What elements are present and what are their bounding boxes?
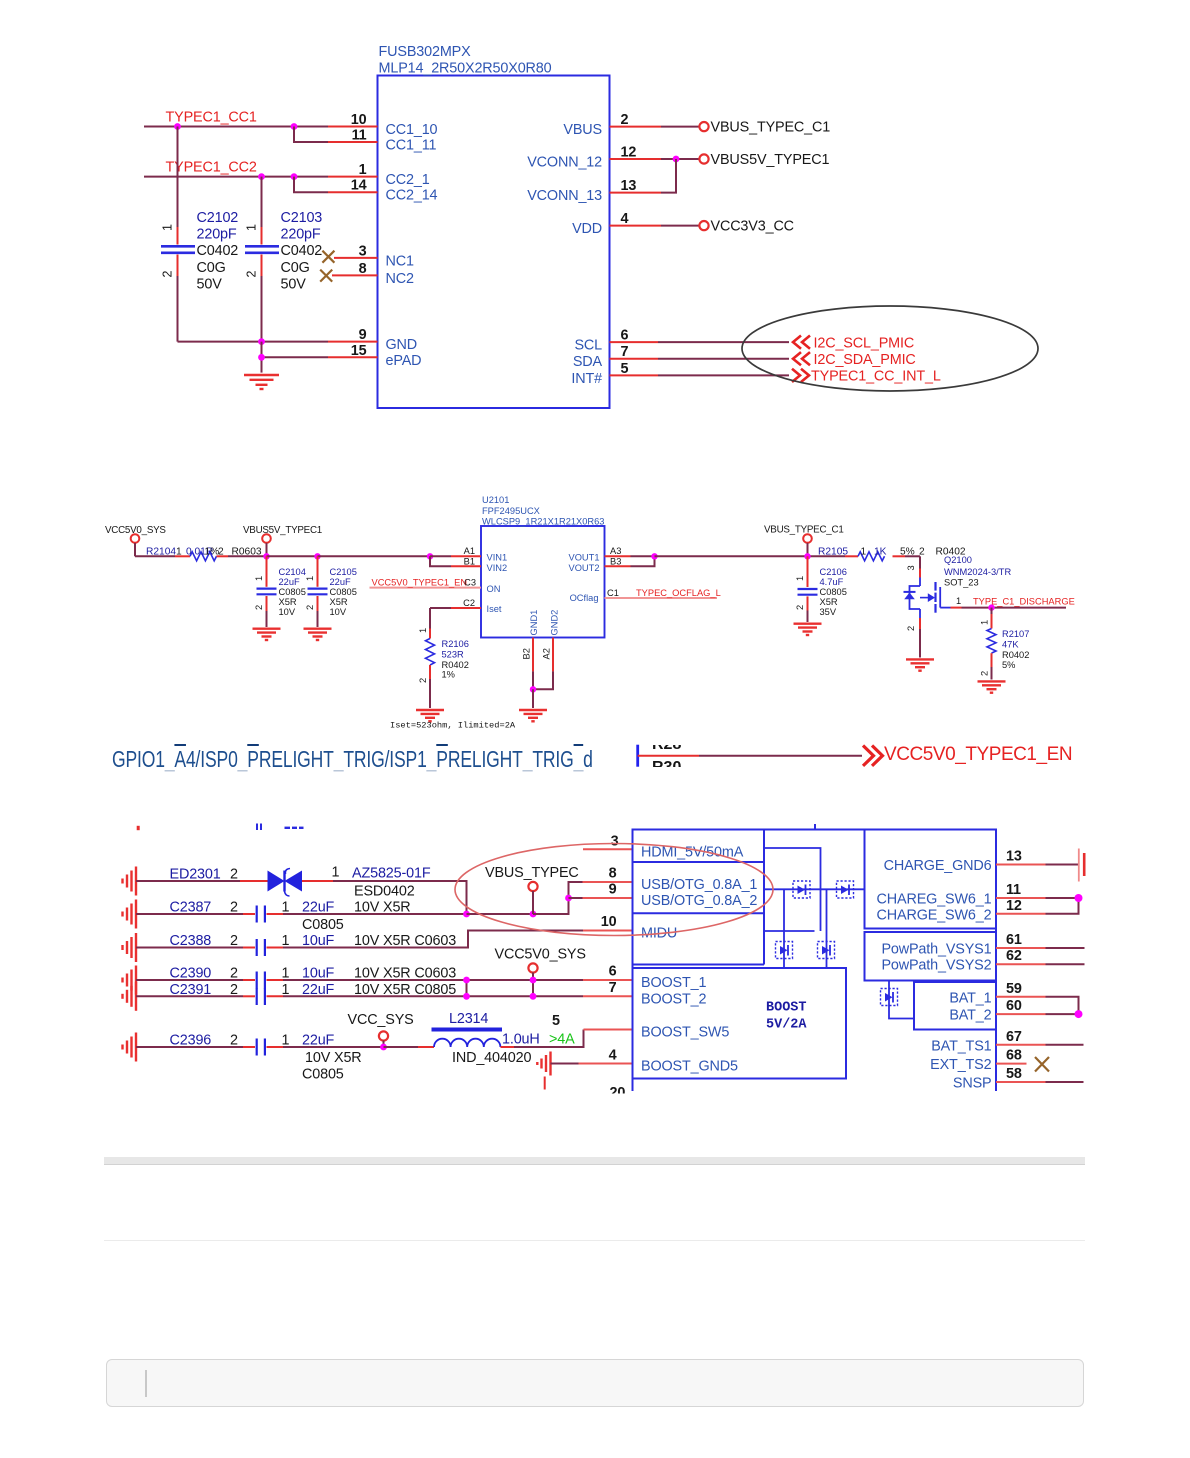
svg-text:USB/OTG_0.8A_2: USB/OTG_0.8A_2	[641, 893, 757, 909]
junction VCC5V0_SYS tap	[530, 977, 537, 984]
svg-text:WNM2024-3/TR: WNM2024-3/TR	[944, 567, 1011, 577]
svg-text:1: 1	[359, 162, 367, 178]
svg-text:C0G: C0G	[281, 260, 310, 276]
svg-text:1K: 1K	[874, 546, 887, 557]
junction C2104	[263, 553, 269, 559]
svg-text:VCC_SYS: VCC_SYS	[348, 1012, 414, 1028]
svg-text:B2: B2	[522, 648, 532, 659]
wire GND rail	[178, 327, 378, 343]
node TYPEC1_CC2	[166, 160, 257, 176]
junction VOUT	[651, 553, 657, 559]
wire GND1 B2	[522, 638, 534, 690]
svg-text:C0805: C0805	[302, 917, 344, 933]
capacitor C2105	[305, 556, 357, 627]
junction link lower	[463, 993, 470, 1000]
svg-text:C0402: C0402	[197, 243, 239, 259]
svg-text:2: 2	[621, 112, 629, 128]
pin 12 CHARGE_SW6_2	[996, 898, 1079, 914]
svg-text:FUSB302MPX: FUSB302MPX	[379, 44, 472, 60]
junction TYPEC1_CC1 at pin branch	[291, 123, 298, 130]
internal switch symbol 2	[837, 881, 854, 898]
svg-text:C2387: C2387	[170, 900, 212, 916]
svg-text:2: 2	[230, 982, 238, 998]
svg-text:BOOST_SW5: BOOST_SW5	[641, 1025, 729, 1041]
svg-text:2: 2	[230, 933, 238, 949]
pin 1 CC2_1	[359, 162, 367, 178]
svg-text:2: 2	[230, 867, 238, 883]
svg-text:BAT_1: BAT_1	[949, 990, 991, 1006]
svg-text:59: 59	[1006, 981, 1022, 997]
ground left (C2396 row)	[123, 1033, 137, 1062]
svg-text:3: 3	[906, 565, 916, 570]
svg-text:I2C_SDA_PMIC: I2C_SDA_PMIC	[814, 352, 916, 368]
svg-text:X5R: X5R	[330, 597, 348, 607]
svg-text:5%: 5%	[900, 546, 915, 557]
svg-text:5: 5	[621, 361, 629, 377]
pin B3 VOUT2	[605, 556, 655, 566]
svg-text:8: 8	[359, 261, 367, 277]
svg-text:2: 2	[230, 900, 238, 916]
svg-text:C2390: C2390	[170, 966, 212, 982]
CHARGE block	[865, 830, 997, 929]
node VBUS5V_TYPEC1 tap	[243, 525, 322, 556]
svg-text:2: 2	[245, 271, 259, 278]
svg-text:TYPEC1_CC2: TYPEC1_CC2	[166, 160, 257, 176]
svg-text:CC2_14: CC2_14	[386, 188, 438, 204]
svg-text:VCC3V3_CC: VCC3V3_CC	[711, 219, 794, 235]
svg-text:A2: A2	[542, 648, 552, 659]
svg-text:1: 1	[282, 1033, 290, 1049]
svg-text:EXT_TS2: EXT_TS2	[930, 1057, 991, 1073]
svg-text:VIN2: VIN2	[487, 563, 508, 573]
wire ePAD	[262, 342, 378, 373]
svg-text:5: 5	[552, 1013, 560, 1029]
pin name labels U2101	[487, 553, 600, 636]
svg-text:TYPEC_OCFLAG_L: TYPEC_OCFLAG_L	[636, 588, 721, 598]
svg-text:220pF: 220pF	[197, 227, 237, 243]
capacitor C2104	[254, 556, 306, 627]
wire clipped below ground	[544, 1077, 546, 1090]
resistor R2104	[135, 546, 267, 561]
pin B1 VIN2	[430, 556, 481, 566]
junction link upper	[463, 977, 470, 984]
wire CC1_11 branch	[294, 127, 378, 143]
svg-text:C0805: C0805	[279, 587, 306, 597]
wire TYPEC1_CC1	[144, 126, 378, 128]
svg-text:4: 4	[609, 1048, 617, 1064]
svg-text:>4A: >4A	[549, 1032, 575, 1048]
svg-text:INT#: INT#	[571, 371, 602, 387]
pin A3 VOUT1	[605, 546, 655, 556]
svg-text:C2104: C2104	[279, 567, 306, 577]
junction TYPEC1_CC1 at C2102	[174, 123, 181, 130]
svg-text:4.7uF: 4.7uF	[820, 577, 844, 587]
svg-text:BAT_TS1: BAT_TS1	[931, 1038, 991, 1054]
svg-text:11: 11	[1006, 882, 1021, 898]
svg-text:VCC5V0_TYPEC1_EN: VCC5V0_TYPEC1_EN	[372, 578, 468, 588]
pin 8 USB/OTG_0.8A_1	[583, 866, 633, 883]
svg-text:2: 2	[795, 605, 805, 610]
svg-text:10uF: 10uF	[302, 933, 335, 949]
svg-text:1: 1	[282, 900, 290, 916]
svg-text:1: 1	[254, 576, 264, 581]
junction BAT	[1075, 1010, 1083, 1018]
pin name labels big chip left	[641, 844, 757, 1074]
ground left (ED2301 row)	[123, 867, 137, 896]
wire GND2 A2	[533, 638, 553, 690]
svg-text:CC2_1: CC2_1	[386, 172, 430, 188]
pin 12 VCONN_12	[610, 145, 699, 161]
svg-text:R2105: R2105	[818, 546, 848, 557]
svg-text:22uF: 22uF	[330, 577, 352, 587]
wire to C2105	[267, 555, 318, 557]
ground (Q2100 source)	[906, 659, 934, 670]
svg-text:SCL: SCL	[574, 338, 602, 354]
svg-text:ESD0402: ESD0402	[354, 884, 415, 900]
inductor L2314	[384, 1011, 584, 1066]
svg-text:1: 1	[305, 576, 315, 581]
svg-text:3: 3	[611, 833, 619, 849]
internal switch symbol 5	[881, 989, 898, 1006]
svg-text:220pF: 220pF	[281, 227, 321, 243]
svg-text:10: 10	[351, 112, 367, 128]
wire C2387 row to VBUS_TYPEC tap	[467, 913, 534, 915]
resistor R2107	[980, 608, 1030, 680]
svg-text:L2314: L2314	[449, 1011, 488, 1027]
capacitor C2106	[795, 556, 847, 622]
svg-text:10V X5R C0805: 10V X5R C0805	[354, 982, 456, 998]
svg-text:2: 2	[418, 678, 428, 683]
junction VIN	[427, 553, 433, 559]
svg-text:2: 2	[230, 966, 238, 982]
svg-text:C2: C2	[463, 598, 475, 608]
node VCC_SYS	[348, 1012, 414, 1047]
svg-text:USB/OTG_0.8A_1: USB/OTG_0.8A_1	[641, 877, 757, 893]
BOOST block	[633, 968, 847, 1079]
svg-text:3: 3	[359, 244, 367, 260]
svg-text:1: 1	[956, 596, 961, 606]
svg-text:CHARGE_SW6_2: CHARGE_SW6_2	[877, 907, 992, 923]
svg-text:BAT_2: BAT_2	[949, 1008, 991, 1024]
svg-text:C2102: C2102	[197, 210, 239, 226]
svg-text:7: 7	[609, 980, 617, 996]
svg-text:5V/2A: 5V/2A	[766, 1018, 807, 1033]
svg-text:WLCSP9_1R21X1R21X0R63: WLCSP9_1R21X1R21X0R63	[482, 516, 604, 526]
junction VCONN	[673, 156, 680, 163]
svg-text:OCflag: OCflag	[570, 593, 599, 603]
svg-text:X5R: X5R	[820, 597, 838, 607]
svg-text:4: 4	[621, 211, 629, 227]
svg-text:C0G: C0G	[197, 260, 226, 276]
svg-text:CHAREG_SW6_1: CHAREG_SW6_1	[877, 892, 992, 908]
internal switch symbol 3	[776, 942, 793, 959]
ground right (pin 13)	[1079, 849, 1084, 882]
svg-text:62: 62	[1006, 948, 1022, 964]
svg-text:7: 7	[621, 344, 629, 360]
svg-text:10uF: 10uF	[302, 966, 335, 982]
junction TYPEC1_CC2 at C2103	[258, 173, 265, 180]
svg-text:1: 1	[176, 546, 182, 557]
pin 68 EXT_TS2 no-connect	[996, 1048, 1049, 1072]
pin 58 SNSP	[996, 1066, 1084, 1082]
BAT block	[914, 982, 996, 1030]
svg-text:CHARGE_GND6: CHARGE_GND6	[884, 858, 992, 874]
pin 14 CC2_14	[351, 178, 367, 194]
node VCC3V3_CC	[699, 219, 794, 235]
svg-text:GND: GND	[386, 337, 418, 353]
wire separator bar	[104, 1157, 1085, 1165]
junction C2391 tap	[530, 993, 537, 1000]
svg-text:VCONN_13: VCONN_13	[527, 188, 602, 204]
ground right (BOOST_GND5)	[537, 1052, 550, 1076]
svg-text:VCC5V0_SYS: VCC5V0_SYS	[495, 947, 586, 963]
pin 7 BOOST_2	[583, 980, 633, 996]
svg-text:C2105: C2105	[330, 567, 357, 577]
pin C2 Iset	[430, 598, 481, 608]
svg-text:58: 58	[1006, 1066, 1022, 1082]
svg-text:15: 15	[351, 343, 367, 359]
svg-text:ePAD: ePAD	[386, 353, 422, 369]
svg-text:X5R: X5R	[279, 597, 297, 607]
ground left (C2391 row)	[123, 982, 137, 1011]
svg-text:1: 1	[161, 224, 175, 231]
svg-text:C2391: C2391	[170, 982, 212, 998]
pin 7 SDA	[610, 344, 790, 360]
svg-text:10: 10	[601, 914, 617, 930]
node VBUS_TYPEC	[485, 865, 579, 914]
ground (U2101)	[519, 710, 547, 721]
internal switch symbol 1	[793, 881, 810, 898]
capacitor C2390	[136, 966, 583, 989]
svg-text:C0805: C0805	[820, 587, 847, 597]
value label Iset note	[390, 721, 516, 731]
pin 20 clipped	[598, 1085, 632, 1104]
svg-text:R2107: R2107	[1002, 629, 1029, 639]
node VCC5V0_TYPEC1_EN chevron	[863, 746, 883, 766]
pin 9 USB/OTG_0.8A_2	[569, 882, 633, 899]
svg-text:8: 8	[609, 866, 617, 882]
svg-text:47K: 47K	[1002, 640, 1019, 650]
junction C2106	[804, 553, 810, 559]
svg-text:6: 6	[621, 328, 629, 344]
svg-text:22uF: 22uF	[302, 900, 335, 916]
svg-text:SDA: SDA	[573, 354, 603, 370]
svg-text:C0402: C0402	[281, 243, 323, 259]
wire to U2101 VIN	[318, 555, 431, 557]
junction VBUS_TYPEC tap	[530, 911, 537, 918]
node VCC5V0_TYPEC1_EN label	[884, 744, 1072, 766]
svg-text:U2101: U2101	[482, 495, 509, 505]
svg-text:NC1: NC1	[386, 254, 414, 270]
svg-text:10V: 10V	[279, 607, 296, 617]
node VBUS_TYPEC_C1	[699, 120, 830, 136]
svg-text:67: 67	[1006, 1029, 1022, 1045]
svg-text:VBUS5V_TYPEC1: VBUS5V_TYPEC1	[243, 525, 322, 536]
node TYPEC1_CC_INT_L chevron	[792, 369, 941, 385]
svg-text:CC1_10: CC1_10	[386, 122, 438, 138]
internal power path wires	[764, 848, 914, 1019]
svg-text:12: 12	[621, 145, 637, 161]
junction ED2301/C2387	[463, 911, 470, 918]
svg-text:PowPath_VSYS2: PowPath_VSYS2	[881, 958, 991, 974]
svg-text:VIN1: VIN1	[487, 553, 508, 563]
svg-text:13: 13	[1006, 849, 1022, 865]
pin 11 CC1_11	[352, 128, 367, 144]
svg-text:TYPEC1_CC_INT_L: TYPEC1_CC_INT_L	[811, 369, 941, 385]
svg-text:C2388: C2388	[170, 933, 212, 949]
svg-text:22uF: 22uF	[279, 577, 301, 587]
pin name labels FUSB302 left	[386, 122, 438, 369]
ground left (C2387 row)	[123, 900, 137, 929]
svg-text:VBUS_TYPEC_C1: VBUS_TYPEC_C1	[711, 120, 831, 136]
svg-text:SOT_23: SOT_23	[944, 578, 979, 588]
svg-text:2: 2	[254, 605, 264, 610]
PowPath block	[865, 932, 997, 981]
svg-text:2: 2	[230, 1033, 238, 1049]
pin name labels FUSB302 right	[527, 122, 602, 387]
pin 67 BAT_TS1	[996, 1029, 1084, 1045]
diode ED2301 AZ5825-01F	[136, 865, 467, 915]
svg-text:1: 1	[795, 576, 805, 581]
pin 10 MIDU	[583, 914, 633, 931]
svg-text:VBUS5V_TYPEC1: VBUS5V_TYPEC1	[711, 152, 830, 168]
node I2C_SDA_PMIC chevron	[793, 352, 916, 368]
wire to USB/OTG pins	[533, 882, 583, 914]
pin 13 VCONN_13	[610, 159, 677, 194]
wire R28 net to VCC5V0_TYPEC1_EN	[638, 745, 862, 767]
svg-text:GND2: GND2	[550, 610, 560, 636]
svg-text:VBUS_TYPEC_C1: VBUS_TYPEC_C1	[764, 525, 844, 536]
ground left (C2390 row)	[123, 966, 137, 995]
svg-text:Iset: Iset	[487, 604, 502, 614]
svg-text:VDD: VDD	[572, 221, 602, 237]
svg-text:A1: A1	[464, 546, 475, 556]
svg-text:9: 9	[609, 882, 617, 898]
node VBUS_TYPEC_C1	[764, 525, 844, 557]
svg-text:VBUS: VBUS	[563, 122, 602, 138]
internal switch symbol 4	[818, 942, 835, 959]
junction GND rail	[258, 338, 265, 345]
ellipse highlight I2C nets	[742, 306, 1038, 391]
pin 10 CC1_10	[351, 112, 367, 128]
svg-text:Q2100: Q2100	[944, 555, 972, 565]
node TYPE_C1_DISCHARGE	[973, 597, 1075, 608]
ellipse highlight VBUS_TYPEC	[455, 844, 773, 936]
svg-text:C3: C3	[464, 578, 476, 588]
pin 59 BAT_1	[996, 981, 1079, 1014]
svg-text:1: 1	[245, 224, 259, 231]
ground left (C2388 row)	[123, 933, 137, 962]
svg-text:1%: 1%	[442, 670, 455, 680]
svg-text:PowPath_VSYS1: PowPath_VSYS1	[881, 942, 991, 958]
svg-text:22uF: 22uF	[302, 1033, 335, 1049]
node comment input box	[106, 1359, 1084, 1407]
svg-text:2: 2	[161, 271, 175, 278]
svg-text:C0805: C0805	[330, 587, 357, 597]
svg-text:VBUS_TYPEC: VBUS_TYPEC	[485, 865, 579, 881]
pin 13 CHARGE_GND6	[996, 849, 1078, 865]
svg-text:10V X5R C0603: 10V X5R C0603	[354, 966, 456, 982]
junction ePAD	[258, 354, 265, 361]
svg-text:R0402: R0402	[1002, 650, 1029, 660]
svg-text:61: 61	[1006, 932, 1022, 948]
svg-text:AZ5825-01F: AZ5825-01F	[352, 866, 431, 882]
capacitor C2387	[136, 900, 467, 934]
svg-text:523R: 523R	[442, 650, 465, 660]
svg-text:1: 1	[980, 620, 990, 625]
svg-text:BOOST: BOOST	[766, 1001, 807, 1016]
svg-text:MLP14_2R50X2R50X0R80: MLP14_2R50X2R50X0R80	[379, 61, 552, 77]
svg-text:2: 2	[218, 546, 224, 557]
svg-text:68: 68	[1006, 1048, 1022, 1064]
svg-text:R0603: R0603	[232, 546, 262, 557]
svg-text:C2103: C2103	[281, 210, 323, 226]
remnant marks above ED2301 row	[138, 824, 303, 831]
ground (C2105)	[304, 629, 332, 640]
svg-text:ED2301: ED2301	[170, 867, 221, 883]
svg-text:IND_404020: IND_404020	[452, 1050, 531, 1066]
svg-text:R2104: R2104	[146, 546, 176, 557]
op-amp U2101 FPF2495UCX chip body	[481, 495, 605, 638]
op-amp U? FUSB302MPX chip body	[378, 44, 610, 408]
pin name labels big chip right	[877, 858, 992, 1092]
svg-text:C1: C1	[607, 588, 619, 598]
svg-text:FPF2495UCX: FPF2495UCX	[482, 506, 540, 516]
svg-text:BOOST_1: BOOST_1	[641, 975, 706, 991]
svg-text:5%: 5%	[1002, 660, 1015, 670]
svg-text:C0805: C0805	[302, 1067, 344, 1083]
resistor R28 clipped fragment	[648, 745, 696, 767]
svg-text:TYPEC1_CC1: TYPEC1_CC1	[166, 110, 257, 126]
node GPIO1_A4/ISP0_PRELIGHT_TRIG/ISP1_PRELIGHT_TRIG_d label	[112, 746, 593, 773]
svg-text:CC1_11: CC1_11	[386, 138, 437, 154]
junction VCC_SYS tap	[380, 1044, 387, 1051]
svg-text:22uF: 22uF	[302, 982, 335, 998]
node VCC5V0_TYPEC1_EN pin C3 ON	[370, 578, 482, 588]
pin 4 VDD	[610, 211, 699, 227]
node VCC5V0_SYS	[105, 525, 166, 556]
wire separator line	[104, 1240, 1085, 1242]
svg-text:VOUT1: VOUT1	[569, 553, 600, 563]
ground (C2104)	[253, 629, 281, 640]
svg-text:50V: 50V	[281, 277, 307, 293]
node I2C_SCL_PMIC chevron	[793, 335, 914, 351]
capacitor C2391	[136, 982, 583, 1005]
svg-text:NC2: NC2	[386, 271, 414, 287]
pin 62 PowPath_VSYS2	[996, 948, 1085, 964]
svg-text:B1: B1	[464, 557, 475, 567]
svg-text:GND1: GND1	[529, 610, 539, 636]
pin 6 BOOST_1	[583, 964, 633, 981]
node input cursor	[145, 1370, 147, 1398]
svg-text:13: 13	[621, 178, 637, 194]
svg-text:50V: 50V	[197, 277, 223, 293]
svg-text:2: 2	[906, 626, 916, 631]
ground (R2106)	[416, 710, 444, 721]
svg-text:14: 14	[351, 178, 367, 194]
svg-text:10V X5R C0603: 10V X5R C0603	[354, 933, 456, 949]
svg-text:1: 1	[332, 865, 340, 881]
capacitor C2102	[161, 127, 239, 342]
node TYPEC1_CC1	[166, 110, 257, 126]
junction C2105	[314, 553, 320, 559]
svg-text:A3: A3	[610, 546, 621, 556]
node VBUS5V_TYPEC1	[699, 152, 829, 168]
wire to ground	[532, 689, 534, 708]
wire TYPEC1_CC2	[144, 176, 378, 178]
svg-text:10V X5R: 10V X5R	[305, 1050, 362, 1066]
svg-text:Iset=523ohm, Ilimited=2A: Iset=523ohm, Ilimited=2A	[390, 721, 516, 731]
